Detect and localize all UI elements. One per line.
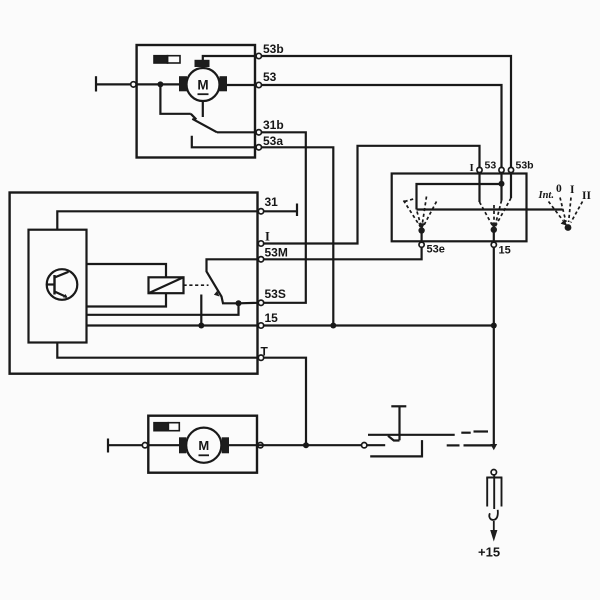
terminal 31 (relay) (258, 209, 263, 214)
wire: motor armature lead to park switch (202, 101, 204, 117)
terminal 53M (relay) (258, 257, 263, 262)
terminal I (switch) (477, 167, 482, 172)
relay electronic module box (29, 230, 87, 343)
wire: washer switch stub (367, 444, 385, 446)
dash: pulled position lower (447, 444, 460, 446)
dashed ray: left contact from feed (417, 212, 421, 227)
washer switch actuator cap (391, 405, 406, 407)
legend Int arrowhead (561, 219, 567, 226)
dashed ray: I to right contact (480, 202, 494, 227)
wire: battery lead into wiper motor (96, 83, 179, 85)
+15 arrowhead (490, 530, 497, 542)
wire 53a (L-shape) to riser (192, 136, 333, 326)
node: junction dot 53S (236, 300, 242, 306)
wire: washer switch to 15 column (464, 444, 494, 446)
node: junction dot 15/switch drop (491, 323, 497, 329)
left contact arrowhead (418, 223, 425, 229)
dashed ray: left contact from NW (404, 201, 421, 228)
fusible link in wiper motor (154, 56, 180, 63)
terminal I (relay) (258, 241, 263, 246)
svg-text:Int.: Int. (538, 190, 554, 201)
terminal: washer left pin (142, 443, 147, 448)
svg-text:31b: 31b (263, 118, 284, 132)
wire: coil return to module (87, 293, 167, 306)
svg-text:15: 15 (499, 245, 511, 257)
dashed ray: left contact vertical (422, 197, 427, 227)
dashed ray: 53 to right contact (495, 201, 502, 228)
dash: pulled position upper a (461, 432, 470, 434)
svg-text:I: I (470, 162, 474, 174)
washer pump box (148, 416, 257, 473)
svg-text:M: M (197, 78, 208, 93)
wiper motor M1 (179, 60, 227, 101)
wire T from module to washer line (57, 343, 306, 446)
legend dashed ray 0 (560, 198, 566, 223)
terminal 53 (switch) (499, 167, 504, 172)
svg-text:53b: 53b (516, 160, 534, 172)
wire 31b to relay 53S (217, 132, 306, 302)
supply end bar (lead end) (95, 76, 97, 91)
terminal 53e (switch) (419, 242, 424, 247)
wire: left contact to terminal 53e (421, 231, 423, 243)
transistor Q1 (47, 269, 78, 300)
relay contact arm from 53M (207, 259, 260, 303)
terminal 53 (motor) (256, 82, 261, 87)
washer pump motor M2 (179, 428, 229, 463)
wire: battery lead into washer pump (108, 444, 179, 446)
node: junction dot on 53 drop (499, 181, 505, 187)
wire 53M from relay to switch 53e (261, 247, 422, 259)
wire: switch I internal drop (478, 173, 480, 202)
washer switch actuator stem (398, 406, 400, 440)
svg-text:I: I (570, 184, 575, 196)
terminal 53S (relay) (258, 300, 263, 305)
wire 31 from module to terminal and ground bar (57, 211, 297, 229)
ground end bar (terminal 31) (296, 204, 298, 217)
park switch fixed contact tick (191, 114, 197, 120)
wire I from relay to column switch (261, 146, 480, 244)
wire: relay coil loop (87, 264, 167, 277)
dashed arc tick between left rays (405, 199, 416, 202)
terminal 53a (motor) (256, 145, 261, 150)
dashed mechanical link coil to contact (184, 284, 209, 286)
wire to +15 arrow (493, 521, 495, 531)
column switch box (392, 174, 527, 242)
wiper motor assembly box (137, 45, 255, 158)
svg-text:53S: 53S (265, 287, 286, 301)
svg-text:+15: +15 (478, 545, 500, 560)
wire: park-switch feed from junction (160, 84, 190, 113)
junction arrowhead at 15 column (490, 444, 497, 450)
svg-text:31: 31 (265, 195, 279, 209)
svg-text:53b: 53b (263, 42, 284, 56)
arm contact arrowhead (214, 291, 220, 297)
svg-text:53e: 53e (427, 244, 445, 256)
svg-text:53: 53 (485, 160, 497, 172)
wire: pointer line to position legend (417, 208, 563, 210)
switch position legend: dashed ray Int. (549, 202, 564, 221)
washer switch blade (388, 436, 400, 441)
wire: switch 53b internal drop (510, 173, 512, 198)
washer switch contact pin (362, 443, 367, 448)
svg-text:53: 53 (263, 70, 277, 84)
terminal: washer right pin (258, 443, 263, 448)
terminal T (relay) (258, 355, 263, 360)
terminal 15 (switch) (491, 242, 496, 247)
node: junction dot T/washer (303, 442, 309, 448)
node: junction dot on motor feed (157, 81, 163, 87)
relay fixed contact to 15 rail (200, 295, 202, 326)
wire: right contact to terminal 15 (493, 230, 495, 446)
interval relay box (10, 193, 258, 374)
connector hook (489, 510, 498, 520)
dashed ray: left contact from NE (423, 202, 437, 228)
dashed ray: middle vertical right contact (493, 205, 495, 224)
svg-text:15: 15 (265, 311, 279, 325)
legend dashed ray II (571, 202, 583, 223)
node: legend pivot dot (565, 224, 572, 231)
fuse top pin (491, 470, 496, 475)
node: junction dot on 15 rail at fixed contact (198, 323, 204, 329)
svg-text:I: I (265, 230, 270, 244)
terminal 53b (motor) (256, 53, 261, 58)
washer switch upper contact bar (368, 434, 455, 436)
terminal 53b (switch) (508, 167, 513, 172)
park switch arm (192, 119, 217, 133)
svg-text:53M: 53M (265, 246, 288, 260)
svg-text:M: M (198, 438, 209, 453)
terminal: motor left pin (131, 82, 136, 87)
fusible link in washer pump (154, 423, 179, 431)
node: left contact dot (53e) (418, 227, 424, 233)
dashed ray: 53b to right contact (495, 198, 511, 227)
washer switch lower contact L (370, 440, 422, 456)
wire: switch 53 internal drop (500, 173, 502, 201)
terminal 31b (motor) (256, 130, 261, 135)
wire 53 from right brush to switch (227, 85, 502, 167)
wire 15 rail through relay (87, 324, 494, 326)
svg-text:T: T (261, 345, 269, 359)
node: junction dot 15/53a riser (330, 323, 336, 329)
washer supply end bar (107, 439, 109, 453)
svg-text:53a: 53a (263, 134, 283, 148)
wire: 53 branch to left contact feed (417, 184, 502, 210)
svg-text:0: 0 (556, 183, 562, 195)
wire: washer pump to washer switch (229, 444, 361, 446)
wire 53b from top brush (203, 56, 511, 167)
fuse F1 body (486, 475, 502, 509)
legend dashed ray I (569, 198, 571, 223)
dash: pulled position upper b (474, 430, 489, 432)
terminal 15 (relay) (258, 323, 263, 328)
right contact arrowhead (490, 223, 497, 229)
node: right contact dot (15) (491, 227, 497, 233)
svg-text:II: II (582, 190, 591, 202)
wire: 53S return to module (87, 303, 239, 315)
relay coil K1 (149, 277, 184, 293)
